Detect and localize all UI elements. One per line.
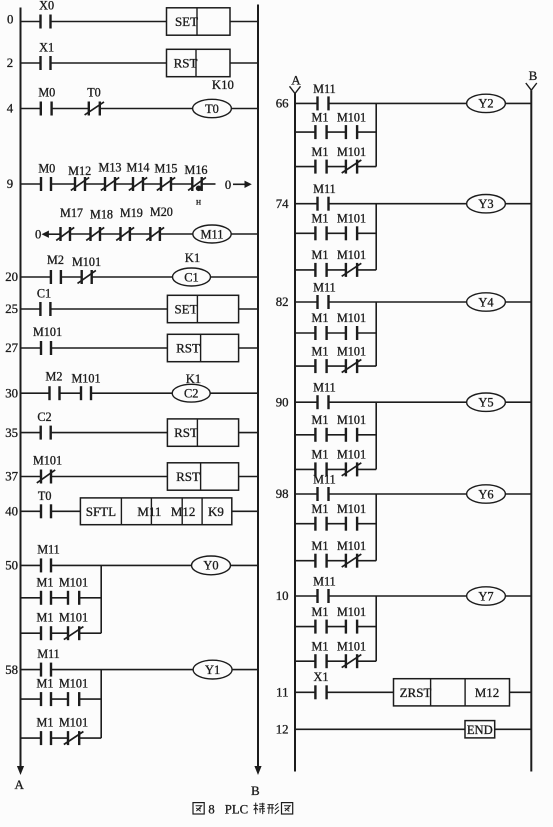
wire rung 90 branch2 right bbox=[357, 468, 376, 470]
svg-text:Y6: Y6 bbox=[478, 487, 493, 501]
contact M2 (NO) rung 30 bbox=[46, 370, 63, 401]
svg-text:PLC: PLC bbox=[225, 802, 248, 816]
ZRST function box rung 11 bbox=[394, 679, 510, 706]
svg-text:K9: K9 bbox=[208, 504, 224, 519]
continuation label 0 (right) bbox=[225, 178, 231, 192]
wire rung 58 branch1 left bbox=[21, 698, 42, 700]
svg-text:M101: M101 bbox=[337, 448, 366, 462]
contact M19 (NC) rung 9b bbox=[116, 206, 143, 241]
branch join vertical rung 50 bbox=[100, 565, 102, 633]
wire rung 9b seg1 bbox=[70, 233, 91, 235]
wire rung 9 seg1 bbox=[21, 183, 42, 185]
wire rung 74 branch2 left bbox=[295, 269, 315, 271]
svg-text:4: 4 bbox=[7, 102, 14, 116]
contact X0 (NO) rung 0 bbox=[39, 0, 54, 28]
svg-text:Y0: Y0 bbox=[203, 559, 218, 573]
wire rung 98 branch2 left bbox=[295, 560, 315, 562]
wire rung 25 right bbox=[239, 308, 258, 310]
contact M101 (NC) rung 98 b2 bbox=[337, 539, 366, 568]
svg-text:M1: M1 bbox=[312, 110, 329, 124]
contact M16 (NC) rung 9 bbox=[184, 163, 207, 191]
rung number 12 bbox=[276, 723, 289, 737]
svg-text:M1: M1 bbox=[312, 212, 329, 226]
wire rung 74 branch1 right bbox=[357, 232, 376, 234]
contact M15 (NC) rung 9 bbox=[154, 162, 177, 192]
rung number 30 bbox=[5, 386, 18, 400]
svg-text:40: 40 bbox=[5, 505, 18, 519]
wire rung 20 mid1 bbox=[61, 276, 82, 278]
wire rung 50 branch2 left bbox=[21, 632, 42, 634]
contact M1 (NO) rung 82 b1 bbox=[312, 311, 329, 340]
wire rung 82 right bbox=[505, 301, 531, 303]
wire rung 9 seg3 bbox=[85, 183, 105, 185]
svg-text:M1: M1 bbox=[312, 311, 329, 325]
wire rung 20 right bbox=[211, 276, 259, 278]
wire rung 74 right bbox=[505, 203, 531, 205]
END box rung 12 bbox=[465, 721, 495, 738]
wire rung 66 branch1 right bbox=[357, 131, 376, 133]
wire rung 2 left bbox=[21, 62, 41, 64]
contact T0 (NC) rung 4 bbox=[85, 86, 104, 116]
wire rung 10 left bbox=[295, 595, 318, 597]
wire rung 58 branch2 right bbox=[79, 737, 101, 739]
wire rung 50 mid bbox=[51, 564, 192, 566]
contact M1 (NO) rung 98 b1 bbox=[312, 502, 329, 531]
svg-text:K10: K10 bbox=[212, 78, 234, 92]
wire rung 58 left bbox=[21, 669, 42, 671]
small mark under M16 bbox=[196, 198, 201, 208]
RST box rung 2 bbox=[167, 49, 231, 76]
svg-text:M101: M101 bbox=[33, 325, 62, 339]
contact M11 (NO) rung 98 bbox=[313, 473, 336, 502]
right power rail (bus B) bbox=[257, 5, 259, 767]
svg-text:X1: X1 bbox=[39, 41, 54, 55]
rung number 11 bbox=[276, 686, 288, 700]
branch join vertical rung 10 bbox=[375, 596, 377, 661]
svg-text:M11: M11 bbox=[137, 504, 161, 519]
wire rung 82 branch2 left bbox=[295, 365, 315, 367]
wire rung 66 mid bbox=[329, 102, 467, 104]
svg-text:A: A bbox=[15, 777, 25, 792]
contact M11 (NO) rung 66 bbox=[313, 82, 336, 111]
svg-text:8: 8 bbox=[208, 803, 214, 817]
svg-text:M1: M1 bbox=[37, 715, 54, 729]
svg-text:58: 58 bbox=[5, 663, 18, 677]
svg-text:RST: RST bbox=[176, 341, 200, 356]
wire rung 50 right bbox=[231, 564, 259, 566]
svg-text:SET: SET bbox=[174, 302, 197, 317]
svg-text:C1: C1 bbox=[184, 270, 198, 284]
value label K1 (C1) bbox=[185, 251, 200, 265]
wire rung 27 left bbox=[21, 347, 42, 349]
contact M101 (NO) rung 98 b1 bbox=[337, 502, 366, 531]
svg-text:M11: M11 bbox=[37, 543, 60, 557]
wire rung 10 branch1 left bbox=[295, 626, 315, 628]
wire rung 66 left bbox=[295, 102, 318, 104]
right rail bottom arrow bbox=[254, 766, 261, 775]
wire rung 0 left bbox=[21, 21, 41, 23]
contact M101 (NO) rung 50 b1 bbox=[59, 575, 88, 605]
wire rung 9 seg6 bbox=[171, 183, 192, 185]
continuation arrow left bbox=[42, 231, 61, 238]
wire rung 40 right bbox=[232, 510, 258, 512]
svg-text:12: 12 bbox=[276, 723, 289, 737]
svg-text:M1: M1 bbox=[37, 575, 54, 589]
wire rung 98 branch1 right bbox=[357, 523, 376, 525]
svg-text:M20: M20 bbox=[150, 205, 173, 219]
svg-text:ZRST: ZRST bbox=[400, 685, 432, 700]
svg-text:SFTL: SFTL bbox=[86, 504, 116, 519]
wire rung 27 mid bbox=[51, 347, 167, 349]
contact M101 (NC) rung 90 b2 bbox=[337, 448, 366, 477]
node B label (top right ladder) bbox=[529, 68, 538, 83]
wire rung 98 branch2 mid bbox=[327, 560, 346, 562]
rung number 25 bbox=[5, 302, 18, 316]
wire rung 90 branch1 left bbox=[295, 434, 315, 436]
wire rung 90 branch2 mid bbox=[327, 468, 346, 470]
wire rung 30 right bbox=[210, 392, 258, 394]
contact M1 (NO) rung 82 b2 bbox=[312, 344, 329, 373]
svg-text:74: 74 bbox=[276, 197, 289, 211]
coil Y6 rung 98 bbox=[467, 485, 506, 503]
svg-text:M18: M18 bbox=[90, 208, 113, 222]
svg-text:0: 0 bbox=[7, 13, 13, 27]
contact M11 (NO) rung 90 bbox=[313, 381, 336, 410]
svg-text:M101: M101 bbox=[59, 715, 88, 729]
wire rung 2 mid bbox=[50, 62, 166, 64]
wire rung 66 branch1 left bbox=[295, 131, 315, 133]
coil T0 (timer) rung 4 bbox=[193, 99, 232, 117]
branch join vertical rung 66 bbox=[375, 103, 377, 166]
svg-text:T0: T0 bbox=[87, 86, 101, 100]
contact M0 (NO) rung 9 bbox=[38, 162, 55, 192]
wire rung 74 branch1 mid bbox=[327, 232, 346, 234]
wire rung 98 branch1 left bbox=[295, 523, 315, 525]
contact M1 (NO) rung 98 b2 bbox=[312, 539, 329, 568]
wire rung 0 mid bbox=[50, 21, 166, 23]
wire rung 82 mid bbox=[329, 301, 467, 303]
svg-text:M2: M2 bbox=[46, 370, 63, 384]
rung number 50 bbox=[5, 559, 18, 573]
svg-text:30: 30 bbox=[5, 386, 18, 400]
RST box rung 27 bbox=[167, 334, 238, 361]
svg-text:M101: M101 bbox=[337, 248, 366, 262]
svg-text:66: 66 bbox=[276, 97, 289, 111]
SFTL function box rung 40 bbox=[80, 498, 231, 525]
svg-text:M101: M101 bbox=[337, 344, 366, 358]
caption: figure 8 PLC ladder diagram bbox=[193, 802, 293, 816]
right rail top arrowhead (B) bbox=[526, 83, 537, 90]
svg-text:M1: M1 bbox=[312, 145, 329, 159]
wire rung 40 mid bbox=[51, 510, 80, 512]
svg-text:M11: M11 bbox=[37, 647, 60, 661]
junction blob on M16 bbox=[196, 186, 202, 192]
wire rung 9b right bbox=[231, 233, 258, 235]
contact X1 (NO) rung 11 bbox=[314, 670, 329, 700]
wire rung 20 mid2 bbox=[92, 276, 173, 278]
wire rung 82 branch1 right bbox=[357, 332, 376, 334]
RST box rung 35 bbox=[167, 419, 238, 446]
branch join vertical rung 98 bbox=[375, 494, 377, 561]
svg-text:2: 2 bbox=[7, 56, 13, 70]
wire rung 9b seg3 bbox=[130, 233, 151, 235]
wire rung 10 branch1 right bbox=[357, 626, 376, 628]
coil Y1 rung 58 bbox=[193, 660, 232, 679]
svg-text:M14: M14 bbox=[126, 161, 149, 175]
svg-text:M19: M19 bbox=[120, 206, 143, 220]
branch join vertical rung 82 bbox=[375, 302, 377, 366]
svg-text:M11: M11 bbox=[201, 227, 224, 241]
contact X1 (NO) rung 2 bbox=[39, 41, 54, 71]
wire rung 58 branch1 right bbox=[79, 698, 101, 700]
wire rung 9 seg4 bbox=[115, 183, 133, 185]
svg-text:50: 50 bbox=[5, 559, 18, 573]
wire rung 98 branch2 right bbox=[357, 560, 376, 562]
rung number 27 bbox=[5, 341, 18, 355]
coil Y4 rung 82 bbox=[467, 293, 506, 311]
contact C2 (NO) rung 35 bbox=[37, 410, 51, 440]
coil Y3 rung 74 bbox=[467, 195, 506, 213]
wire rung 25 left bbox=[21, 308, 41, 310]
contact M1 (NO) rung 10 b1 bbox=[312, 605, 329, 634]
wire rung 90 branch2 left bbox=[295, 468, 315, 470]
svg-text:20: 20 bbox=[5, 270, 18, 284]
svg-text:M1: M1 bbox=[312, 502, 329, 516]
contact M11 (NO) rung 50 bbox=[37, 543, 60, 573]
wire rung 4 mid1 bbox=[52, 108, 89, 110]
svg-text:M1: M1 bbox=[312, 639, 329, 653]
coil C2 (counter) rung 30 bbox=[172, 384, 210, 402]
wire rung 35 right bbox=[239, 432, 258, 434]
svg-text:0: 0 bbox=[35, 227, 41, 241]
rung number 0 bbox=[7, 13, 13, 27]
svg-text:M101: M101 bbox=[337, 605, 366, 619]
svg-text:M0: M0 bbox=[38, 162, 55, 176]
svg-text:Y2: Y2 bbox=[478, 97, 493, 111]
contact M11 (NO) rung 10 bbox=[313, 575, 336, 604]
svg-text:Y4: Y4 bbox=[478, 295, 493, 309]
contact M1 (NO) rung 74 b2 bbox=[312, 248, 329, 277]
contact M101 (NO) rung 30 bbox=[71, 372, 100, 401]
wire rung 82 branch1 left bbox=[295, 332, 315, 334]
wire rung 9b seg2 bbox=[100, 233, 121, 235]
svg-text:M11: M11 bbox=[313, 82, 336, 96]
svg-text:M1: M1 bbox=[312, 605, 329, 619]
svg-text:M11: M11 bbox=[313, 575, 336, 589]
svg-text:M11: M11 bbox=[313, 281, 336, 295]
SET box rung 25 bbox=[167, 295, 238, 322]
svg-text:M101: M101 bbox=[337, 311, 366, 325]
wire rung 10 right bbox=[505, 595, 531, 597]
wire rung 11 right bbox=[510, 691, 532, 693]
contact T0 (NO) rung 40 bbox=[38, 489, 52, 519]
wire rung 82 left bbox=[295, 301, 318, 303]
contact M2 (NO) rung 20 bbox=[47, 253, 64, 284]
wire rung 4 right bbox=[232, 108, 259, 110]
svg-text:27: 27 bbox=[5, 341, 18, 355]
value label K1 (C2) bbox=[186, 372, 201, 386]
contact M20 (NC) rung 9b bbox=[146, 205, 173, 241]
rung number 9 bbox=[7, 177, 13, 191]
wire rung 9 seg2 bbox=[51, 183, 75, 185]
wire rung 20 left bbox=[21, 276, 51, 278]
wire rung 90 right bbox=[505, 401, 531, 403]
wire rung 90 left bbox=[295, 401, 318, 403]
wire rung 35 mid bbox=[51, 432, 167, 434]
contact M14 (NC) rung 9 bbox=[126, 161, 149, 192]
svg-text:M1: M1 bbox=[312, 248, 329, 262]
contact M101 (NO) rung 58 b1 bbox=[59, 677, 88, 707]
contact M101 (NO) rung 27 bbox=[33, 325, 62, 355]
rung number 37 bbox=[5, 470, 18, 484]
svg-text:Y1: Y1 bbox=[205, 663, 220, 677]
svg-text:M101: M101 bbox=[33, 454, 62, 468]
svg-text:M15: M15 bbox=[154, 162, 177, 176]
contact M1 (NO) rung 90 b1 bbox=[312, 413, 329, 442]
contact M0 (NO) rung 4 bbox=[38, 86, 55, 116]
rung number 98 bbox=[276, 487, 289, 501]
wire rung 11 mid bbox=[327, 691, 394, 693]
wire rung 58 right bbox=[232, 669, 258, 671]
wire rung 58 branch1 mid bbox=[51, 698, 68, 700]
svg-text:B: B bbox=[251, 783, 260, 798]
svg-text:C2: C2 bbox=[184, 387, 198, 401]
svg-text:Y5: Y5 bbox=[478, 396, 493, 410]
svg-text:RST: RST bbox=[176, 469, 200, 484]
svg-text:T0: T0 bbox=[38, 489, 52, 503]
wire rung 27 right bbox=[239, 347, 258, 349]
svg-text:M101: M101 bbox=[337, 413, 366, 427]
wire rung 50 left bbox=[21, 564, 42, 566]
continuation label 0 (left) bbox=[35, 227, 41, 241]
continuation arrow right bbox=[233, 181, 252, 188]
left rail top arrowhead (A) bbox=[290, 86, 301, 93]
svg-text:10: 10 bbox=[276, 589, 289, 603]
contact M18 (NC) rung 9b bbox=[86, 208, 113, 242]
contact M11 (NO) rung 74 bbox=[313, 182, 336, 211]
contact M101 (NO) rung 66 b1 bbox=[337, 110, 366, 139]
wire rung 74 branch2 right bbox=[357, 269, 376, 271]
contact M1 (NO) rung 66 b1 bbox=[312, 110, 329, 139]
contact M101 (NC) rung 58 b2 bbox=[59, 715, 88, 745]
svg-text:K1: K1 bbox=[185, 251, 200, 265]
value label K10 bbox=[212, 78, 234, 92]
rung number 20 bbox=[5, 270, 18, 284]
svg-text:C2: C2 bbox=[37, 410, 51, 424]
wire rung 10 branch1 mid bbox=[327, 626, 346, 628]
svg-text:M101: M101 bbox=[59, 677, 88, 691]
wire rung 66 branch2 left bbox=[295, 166, 315, 168]
wire rung 37 right bbox=[239, 476, 258, 478]
wire rung 10 branch2 left bbox=[295, 660, 315, 662]
svg-text:M12: M12 bbox=[68, 164, 91, 178]
svg-text:90: 90 bbox=[276, 395, 289, 409]
wire rung 82 branch2 right bbox=[357, 365, 376, 367]
right power rail (right ladder) bbox=[530, 90, 532, 771]
svg-text:M101: M101 bbox=[71, 372, 100, 386]
contact M1 (NO) rung 10 b2 bbox=[312, 639, 329, 668]
wire rung 58 mid bbox=[51, 669, 193, 671]
contact M11 (NO) rung 58 bbox=[37, 647, 60, 677]
wire rung 82 branch2 mid bbox=[327, 365, 346, 367]
SET box rung 0 bbox=[167, 8, 231, 35]
wire rung 66 branch2 mid bbox=[327, 166, 346, 168]
coil Y2 rung 66 bbox=[467, 94, 506, 112]
contact M101 (NC) rung 82 b2 bbox=[337, 344, 366, 373]
wire rung 0 right bbox=[230, 21, 258, 23]
contact M101 (NC) rung 74 b2 bbox=[337, 248, 366, 277]
wire rung 9 seg5 bbox=[143, 183, 161, 185]
svg-text:M11: M11 bbox=[313, 381, 336, 395]
contact M17 (NC) rung 9b bbox=[56, 206, 83, 241]
svg-text:M101: M101 bbox=[337, 212, 366, 226]
wire rung 66 branch2 right bbox=[357, 166, 376, 168]
rung number 66 bbox=[276, 97, 289, 111]
rung number 74 bbox=[276, 197, 289, 211]
contact M101 (NC) rung 20 bbox=[72, 255, 101, 284]
rung number 10 bbox=[276, 589, 289, 603]
wire rung 82 branch1 mid bbox=[327, 332, 346, 334]
left power rail (bus A) bbox=[20, 8, 22, 767]
wire rung 10 branch2 mid bbox=[327, 660, 346, 662]
svg-text:M11: M11 bbox=[313, 182, 336, 196]
svg-text:M101: M101 bbox=[59, 575, 88, 589]
wire rung 50 branch1 left bbox=[21, 597, 42, 599]
wire rung 9b seg4 bbox=[160, 233, 193, 235]
wire rung 35 left bbox=[21, 432, 41, 434]
svg-text:M101: M101 bbox=[59, 611, 88, 625]
contact M101 (NO) rung 82 b1 bbox=[337, 311, 366, 340]
svg-text:M1: M1 bbox=[312, 539, 329, 553]
svg-text:M0: M0 bbox=[38, 86, 55, 100]
wire rung 11 left bbox=[295, 691, 315, 693]
contact M12 (NC) rung 9 bbox=[68, 164, 91, 191]
wire rung 66 right bbox=[505, 102, 531, 104]
svg-text:M2: M2 bbox=[47, 253, 64, 267]
svg-text:X1: X1 bbox=[314, 670, 329, 684]
node B label (bottom left ladder) bbox=[251, 783, 260, 798]
svg-text:A: A bbox=[291, 73, 301, 88]
svg-text:25: 25 bbox=[5, 302, 18, 316]
wire rung 74 mid bbox=[329, 203, 467, 205]
svg-text:н: н bbox=[196, 198, 201, 208]
contact M1 (NO) rung 50 b1 bbox=[37, 575, 54, 605]
svg-text:B: B bbox=[529, 68, 538, 83]
svg-text:T0: T0 bbox=[205, 102, 219, 116]
svg-text:M101: M101 bbox=[72, 255, 101, 269]
wire rung 90 mid bbox=[329, 401, 467, 403]
wire rung 50 branch1 right bbox=[79, 597, 101, 599]
wire rung 50 branch2 right bbox=[79, 632, 101, 634]
svg-text:M13: M13 bbox=[98, 161, 121, 175]
svg-text:Y7: Y7 bbox=[478, 589, 493, 603]
RST box rung 37 bbox=[167, 463, 238, 490]
contact C1 (NO) rung 25 bbox=[37, 287, 51, 317]
svg-text:0: 0 bbox=[225, 178, 231, 192]
wire rung 74 branch1 left bbox=[295, 232, 315, 234]
coil Y0 rung 50 bbox=[192, 556, 231, 575]
wire rung 58 branch2 mid bbox=[51, 737, 68, 739]
wire rung 90 branch1 mid bbox=[327, 434, 346, 436]
wire rung 12 right bbox=[495, 728, 532, 730]
svg-text:M101: M101 bbox=[337, 539, 366, 553]
contact M101 (NO) rung 10 b1 bbox=[337, 605, 366, 634]
svg-text:M11: M11 bbox=[313, 473, 336, 487]
rung number 40 bbox=[5, 505, 18, 519]
wire rung 50 branch1 mid bbox=[51, 597, 68, 599]
node A label (top right ladder) bbox=[291, 73, 301, 88]
svg-text:82: 82 bbox=[276, 295, 289, 309]
